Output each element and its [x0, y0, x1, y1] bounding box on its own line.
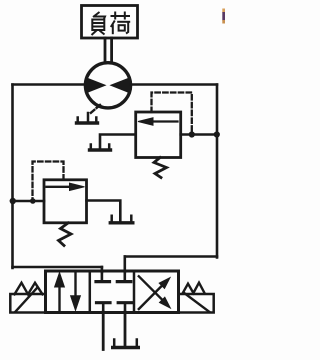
relief valve V1 body (left)	[44, 180, 87, 223]
motor triangle right (filled)	[111, 78, 130, 93]
DV1 box dividers	[90, 271, 134, 313]
wire: V2 left port to tank stem	[100, 135, 136, 149]
tank T1 (motor drain)	[77, 121, 98, 124]
motor drain stem	[87, 113, 90, 122]
wire: port B stub down	[124, 257, 127, 273]
SOL-b diagonal	[184, 293, 210, 313]
load label kanji KA (荷)	[111, 12, 131, 35]
wire: left bus to V1 inlet	[13, 200, 45, 203]
wire: V2 right port to right bus	[181, 133, 217, 136]
V1 spring	[59, 223, 72, 246]
load box	[82, 6, 138, 39]
wire: motor left port to left bus	[13, 83, 86, 86]
hydraulic motor M1 circle	[85, 63, 130, 108]
wire: V1 outlet to tank stem	[87, 201, 121, 222]
wire: left bus to valve port A	[13, 266, 102, 269]
DV1 center position: blocked port T	[124, 303, 127, 312]
directional valve DV1 body	[46, 271, 179, 313]
motor drain dashed line	[90, 105, 101, 114]
tank T2 (V2 outlet)	[90, 148, 111, 151]
junction dot (right bus)	[214, 131, 220, 137]
relief valve V2 body (right)	[136, 112, 181, 158]
spring (right end)	[183, 283, 205, 293]
motor triangle left (filled)	[86, 78, 105, 93]
wire: right bus vertical	[216, 85, 219, 258]
tank T4 (main return)	[113, 346, 139, 349]
clipped colored character fragment at top-right edge	[222, 9, 225, 24]
DV1 center position: blocked port B	[124, 272, 127, 282]
DV1 left position: down arrow	[74, 272, 76, 298]
load label kanji FU (負)	[92, 12, 106, 35]
DV1 right position: cross arrow 1 (up-right)	[139, 286, 162, 309]
junction dot (left bus)	[10, 198, 16, 204]
wire: motor right port to right bus	[131, 83, 217, 86]
V2 internal arrow (points left)	[149, 120, 178, 122]
V2 pilot dashed line	[152, 93, 192, 134]
wire: right bus to valve port B	[125, 255, 217, 258]
wire: tank line T (down from valve)	[124, 312, 127, 347]
solenoid SOL-a box (left)	[10, 294, 45, 313]
V1 internal arrow (points right)	[47, 186, 73, 188]
V1 pilot dashed line	[33, 162, 64, 200]
DV1 right position: cross arrow 2 (down-right)	[139, 276, 162, 299]
wire: left bus vertical	[11, 85, 14, 269]
junction dot (pilot tap, left)	[30, 198, 36, 204]
tank T3 (V1 outlet)	[110, 221, 133, 224]
wire: pump line P (down from valve)	[102, 312, 105, 350]
spring (left end)	[15, 283, 43, 295]
motor shaft double line	[104, 38, 107, 63]
DV1 center position: blocked port A (T symbol)	[101, 272, 104, 282]
wire: port A stub down	[101, 267, 104, 272]
solenoid SOL-b box (right)	[179, 294, 214, 313]
DV1 center position: blocked port P	[102, 303, 105, 312]
SOL-a diagonal	[16, 288, 38, 312]
junction dot (pilot tap, right)	[189, 131, 195, 137]
V2 spring	[154, 158, 167, 178]
DV1 left position: up arrow	[58, 285, 60, 312]
